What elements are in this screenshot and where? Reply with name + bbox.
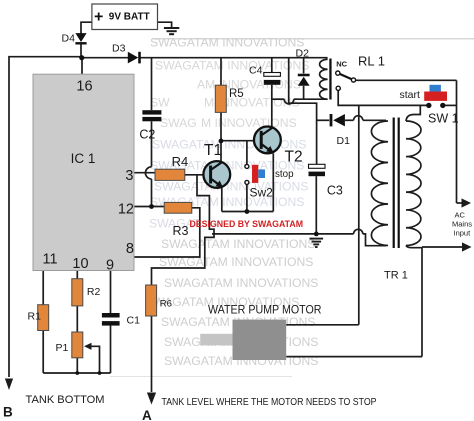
svg-text:SWAGATAM INNOVATIONS: SWAGATAM INNOVATIONS (155, 59, 309, 73)
svg-text:NC: NC (336, 60, 347, 69)
svg-text:D1: D1 (337, 135, 351, 147)
svg-text:R6: R6 (160, 299, 172, 310)
svg-text:C4: C4 (249, 65, 263, 77)
svg-text:16: 16 (76, 79, 92, 95)
svg-text:R4: R4 (172, 154, 189, 169)
svg-text:SW 1: SW 1 (428, 112, 459, 126)
svg-text:AM INNOVATIONS: AM INNOVATIONS (197, 78, 301, 92)
svg-text:D3: D3 (112, 43, 126, 55)
svg-text:+: + (94, 9, 103, 26)
svg-text:DESIGNED BY SWAGATAM: DESIGNED BY SWAGATAM (190, 219, 304, 230)
svg-text:SWAG: SWAG (160, 116, 197, 130)
svg-text:C1: C1 (127, 315, 141, 327)
svg-text:SWAGATAM INNOVATIONS: SWAGATAM INNOVATIONS (164, 276, 318, 290)
svg-text:10: 10 (72, 256, 88, 272)
svg-text:B: B (3, 405, 13, 420)
svg-text:C3: C3 (327, 184, 343, 198)
svg-text:R1: R1 (28, 311, 42, 323)
svg-text:TANK LEVEL WHERE THE MOTOR NEE: TANK LEVEL WHERE THE MOTOR NEEDS TO STOP (162, 397, 377, 408)
svg-text:12: 12 (118, 202, 134, 218)
svg-text:D4: D4 (62, 33, 76, 45)
svg-text:IC 1: IC 1 (71, 151, 96, 166)
svg-text:Input: Input (454, 229, 472, 238)
svg-text:9: 9 (106, 258, 114, 274)
svg-text:3: 3 (125, 168, 133, 184)
svg-text:D2: D2 (296, 48, 310, 60)
svg-text:WATER PUMP MOTOR: WATER PUMP MOTOR (208, 304, 322, 317)
svg-text:Sw2: Sw2 (250, 186, 274, 200)
svg-text:SWAGATAM INNOVATIONS: SWAGATAM INNOVATIONS (161, 237, 315, 251)
svg-text:SWAGATAM INNOVATIONS: SWAGATAM INNOVATIONS (154, 180, 308, 194)
svg-text:AC: AC (455, 211, 466, 220)
svg-text:11: 11 (42, 252, 57, 268)
svg-text:T2: T2 (285, 149, 303, 166)
svg-text:RL 1: RL 1 (358, 54, 385, 69)
svg-text:SW: SW (150, 96, 170, 110)
svg-text:TANK BOTTOM: TANK BOTTOM (26, 394, 105, 406)
svg-text:C2: C2 (139, 128, 155, 142)
svg-text:SWAGATAM INNOVATIONS: SWAGATAM INNOVATIONS (152, 138, 306, 152)
svg-text:8: 8 (126, 241, 134, 257)
svg-text:T1: T1 (204, 142, 222, 159)
svg-text:SWAGATAM INNOVATIONS: SWAGATAM INNOVATIONS (150, 36, 304, 50)
svg-text:9V BATT: 9V BATT (109, 11, 150, 22)
svg-text:P1: P1 (56, 342, 69, 354)
svg-text:R5: R5 (229, 88, 244, 100)
svg-text:stop: stop (275, 169, 294, 180)
svg-text:R3: R3 (173, 224, 189, 238)
svg-text:start: start (400, 89, 421, 101)
svg-text:TR 1: TR 1 (384, 270, 408, 282)
svg-text:M INNOVATIONS: M INNOVATIONS (201, 116, 297, 130)
svg-text:R2: R2 (87, 286, 101, 298)
svg-text:Mains: Mains (452, 220, 472, 229)
svg-text:A: A (142, 408, 152, 421)
